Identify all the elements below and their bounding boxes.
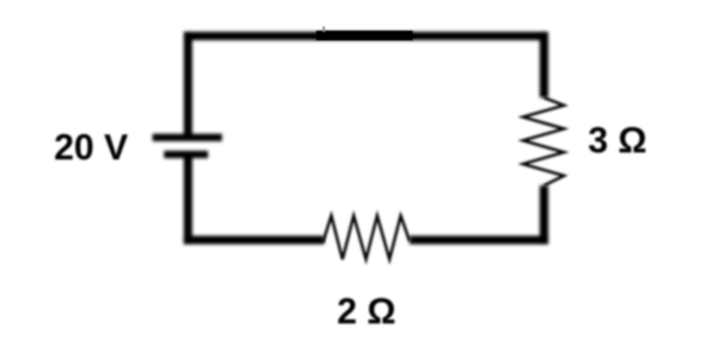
node mark above top wire: [323, 27, 325, 33]
svg-text:20 V: 20 V: [54, 127, 128, 168]
battery V1 long plate: [153, 134, 223, 141]
wire left lower: [184, 158, 193, 244]
wire bottom left: [184, 236, 324, 245]
wire top: [184, 32, 548, 41]
resistor R2 zigzag (2 ohm): [323, 216, 410, 260]
svg-text:3 Ω: 3 Ω: [588, 120, 647, 161]
wire top thick segment: [316, 31, 413, 41]
resistor R1 zigzag (3 ohm): [523, 98, 564, 186]
wire bottom right: [410, 236, 549, 245]
battery V1 short plate: [164, 151, 208, 158]
wire right lower: [540, 186, 549, 245]
svg-text:2 Ω: 2 Ω: [337, 291, 396, 332]
wire left upper: [184, 32, 193, 135]
wire right upper: [540, 32, 549, 98]
